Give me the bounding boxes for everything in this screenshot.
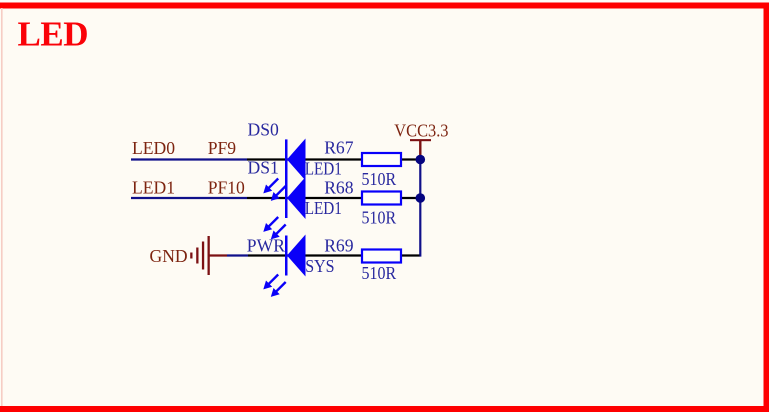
svg-text:LED1: LED1 — [132, 177, 175, 197]
svg-text:LED1: LED1 — [305, 198, 342, 218]
svg-text:SYS: SYS — [305, 256, 334, 276]
svg-text:DS0: DS0 — [248, 119, 279, 139]
svg-text:R69: R69 — [324, 235, 354, 255]
svg-text:DS1: DS1 — [248, 158, 279, 178]
svg-text:R67: R67 — [324, 138, 354, 158]
svg-text:PF10: PF10 — [208, 177, 245, 197]
svg-text:VCC3.3: VCC3.3 — [394, 120, 448, 140]
svg-text:PWR: PWR — [247, 236, 285, 256]
svg-text:GND: GND — [150, 246, 188, 266]
svg-text:510R: 510R — [362, 169, 397, 189]
svg-text:LED: LED — [18, 14, 88, 53]
svg-text:R68: R68 — [324, 177, 354, 197]
svg-text:LED0: LED0 — [132, 138, 175, 158]
svg-text:510R: 510R — [362, 263, 397, 283]
svg-text:510R: 510R — [362, 207, 397, 227]
svg-text:LED1: LED1 — [305, 159, 342, 179]
svg-text:PF9: PF9 — [208, 138, 237, 158]
